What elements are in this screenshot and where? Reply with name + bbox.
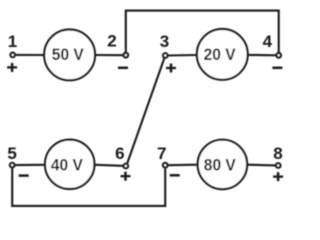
svg-text:2: 2 <box>107 32 116 51</box>
svg-text:20 V: 20 V <box>204 45 237 64</box>
svg-text:8: 8 <box>273 144 282 163</box>
svg-text:80 V: 80 V <box>204 155 237 174</box>
svg-text:1: 1 <box>8 32 17 51</box>
svg-text:40 V: 40 V <box>51 155 84 174</box>
svg-text:4: 4 <box>263 32 273 51</box>
svg-text:50 V: 50 V <box>52 45 85 64</box>
svg-text:3: 3 <box>160 32 169 51</box>
svg-text:6: 6 <box>115 144 124 163</box>
svg-text:5: 5 <box>7 144 16 163</box>
svg-text:7: 7 <box>157 144 166 163</box>
